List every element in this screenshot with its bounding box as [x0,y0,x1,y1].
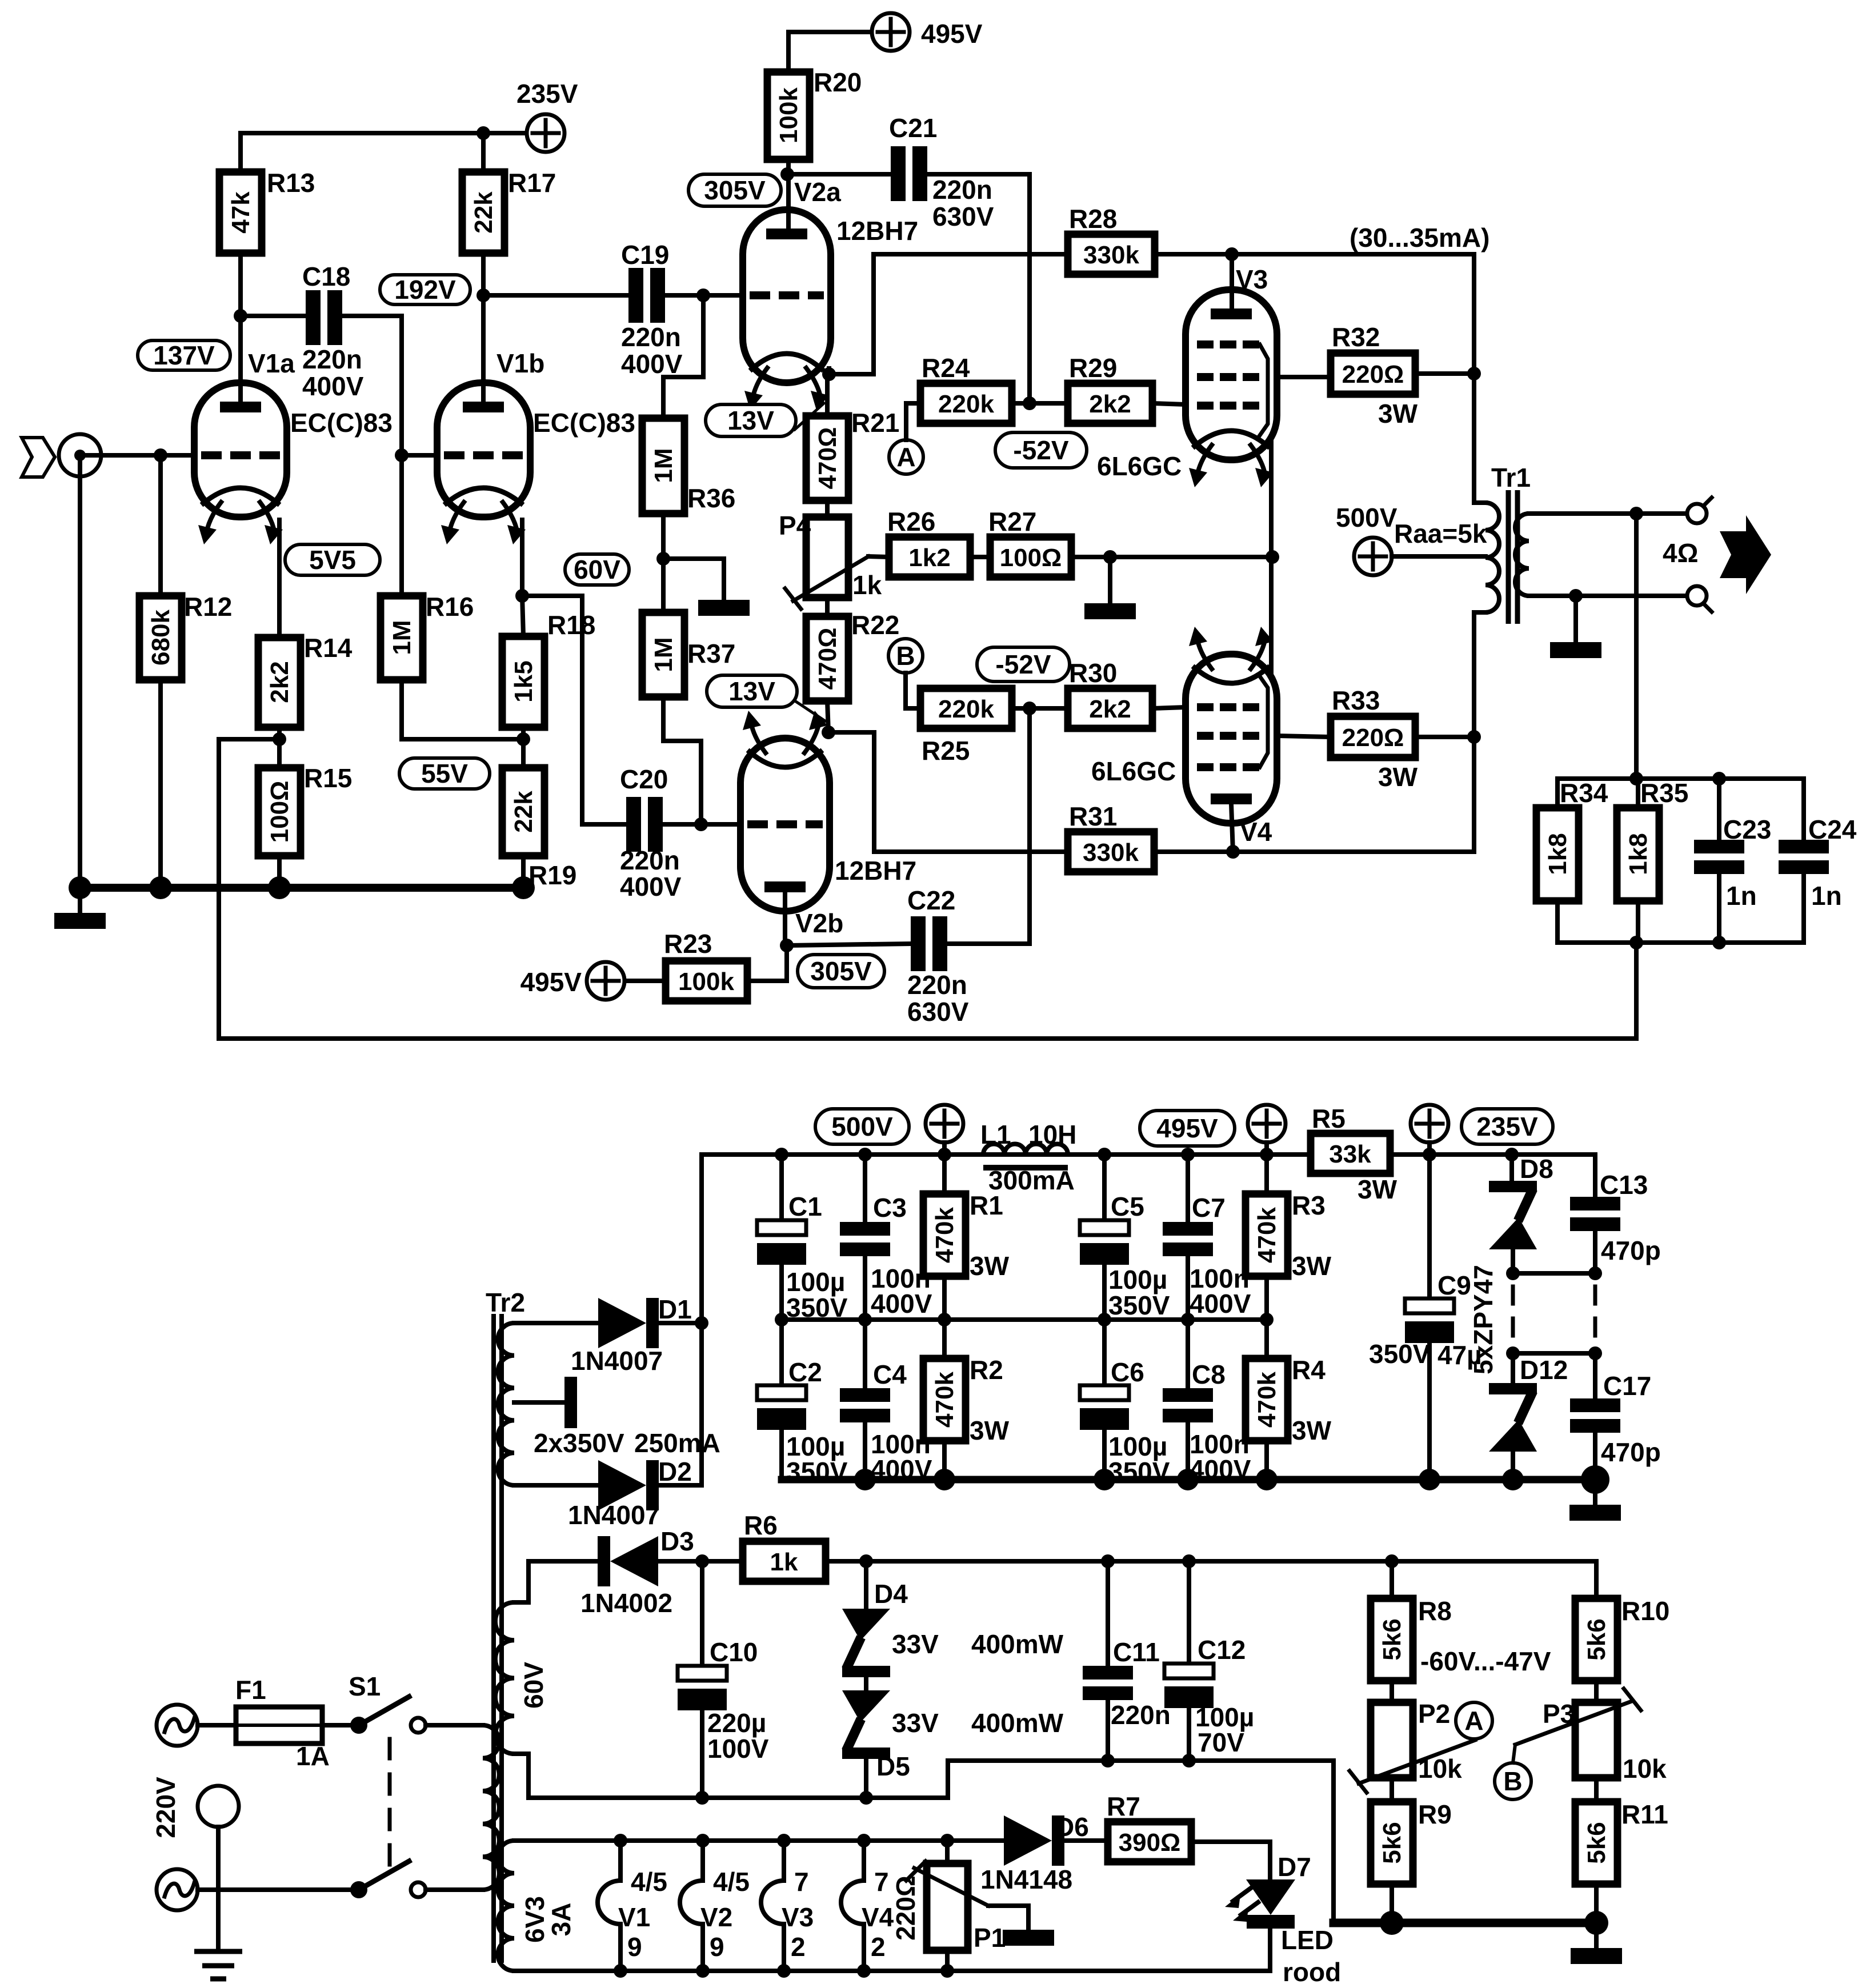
wire R34 stems [1555,779,1560,808]
wire D4 stem [864,1561,868,1609]
wire D5 to bottom [864,1759,868,1798]
svg-text:5k6: 5k6 [1378,1822,1406,1863]
svg-text:R30: R30 [1069,658,1117,688]
voltage label 60V [565,554,629,585]
svg-text:2x350V: 2x350V [534,1428,624,1458]
test point A (bias) [1456,1702,1492,1739]
capacitor C22 [907,885,969,1027]
capacitor C6 (electrolytic) [1080,1357,1170,1486]
tube V1b grid dashes [444,451,523,459]
wire D6 to R7 [1064,1838,1108,1843]
capacitor C10 (electrolytic) [678,1637,769,1763]
svg-text:C11: C11 [1113,1637,1160,1667]
transformer Tr1 secondary [1515,514,1689,596]
svg-text:D2: D2 [658,1457,692,1486]
svg-text:6V3: 6V3 [520,1896,550,1943]
wire bias node to ground [663,559,724,600]
svg-text:V4: V4 [1240,817,1272,847]
svg-text:330k: 330k [1083,241,1139,269]
wire C8 stems [1186,1320,1190,1388]
tube V4 heater arrows [1189,627,1274,669]
resistor R16 [381,592,474,680]
power node + (500V) [926,1105,963,1143]
svg-text:4/5: 4/5 [713,1867,750,1897]
capacitor C11 [1083,1637,1171,1730]
svg-text:3W: 3W [1292,1251,1332,1281]
svg-text:LED: LED [1281,1925,1334,1955]
tube V3 plate [1211,308,1252,319]
wire R8 stem [1390,1561,1394,1598]
svg-text:V2b: V2b [795,908,843,938]
capacitor C7 [1163,1193,1251,1318]
HV bottom rail [782,1476,1595,1484]
wire C22 from V2b anode [787,944,909,945]
wire RCA shield down to ground rail [78,461,82,888]
wire C5 stems [1102,1155,1107,1220]
svg-text:D6: D6 [1055,1812,1089,1842]
wire R4 stems [1264,1320,1269,1358]
zener diode D5 [842,1690,890,1759]
wire D1 to HV rail [659,1321,702,1325]
svg-text:R31: R31 [1069,801,1117,831]
svg-text:V1a: V1a [248,348,295,378]
svg-text:5k6: 5k6 [1583,1618,1611,1660]
wire D8-C13 link [1513,1271,1595,1276]
wire dashed zener chain [1511,1286,1515,1341]
svg-text:4/5: 4/5 [631,1867,667,1897]
wire V1b cathode to 60V node [520,520,524,596]
HV mid rail [782,1317,1267,1322]
svg-text:350V: 350V [1369,1339,1431,1369]
svg-text:R24: R24 [922,353,970,383]
svg-text:C19: C19 [621,240,669,270]
svg-text:192V: 192V [394,275,456,304]
wire ground stem (cathode rail) [1108,557,1112,603]
svg-text:R32: R32 [1332,322,1380,352]
voltage label 495V (supply) [1140,1111,1235,1146]
wire V3 screen to R32 [1277,375,1331,379]
voltage label 192V [380,275,470,304]
svg-text:C18: C18 [302,262,350,291]
svg-text:C13: C13 [1600,1170,1648,1200]
svg-text:R17: R17 [508,168,556,198]
resistor R10 [1575,1596,1669,1681]
resistor R31 [1068,801,1154,872]
node R6/D4 [859,1554,873,1568]
svg-text:70V: 70V [1198,1728,1244,1757]
wire V2a cathode [829,254,874,374]
svg-text:R14: R14 [304,633,353,663]
svg-text:495V: 495V [1156,1113,1218,1143]
svg-text:R12: R12 [184,592,232,622]
svg-text:C8: C8 [1192,1360,1226,1389]
mains earth terminal [198,1786,239,1827]
voltage label 13V (V2a cathode) [706,404,796,436]
svg-text:R33: R33 [1332,686,1380,715]
svg-text:10H: 10H [1028,1120,1076,1149]
capacitor C9 (electrolytic) [1405,1270,1482,1370]
wire R3 stems [1264,1155,1269,1194]
svg-text:1A: 1A [296,1741,330,1771]
wire neutral to switch [198,1887,350,1892]
svg-text:C6: C6 [1111,1357,1144,1387]
svg-text:1N4148: 1N4148 [980,1865,1072,1894]
svg-text:C7: C7 [1192,1193,1226,1223]
tube V4 plate [1211,793,1252,804]
svg-text:220V: 220V [151,1777,181,1838]
node V2b grid [694,817,708,831]
svg-text:1n: 1n [1726,881,1757,911]
svg-text:1k: 1k [770,1548,798,1576]
wire C12 stems [1187,1561,1191,1664]
input RCA jack [59,434,101,476]
svg-text:V1: V1 [618,1902,650,1932]
svg-text:C23: C23 [1723,815,1771,844]
wire P4 wiper to R26 [868,556,889,557]
svg-text:6L6GC: 6L6GC [1091,756,1176,786]
svg-text:R3: R3 [1292,1191,1326,1220]
resistor R29 [1068,353,1152,423]
svg-text:R2: R2 [970,1355,1003,1385]
svg-text:Raa=5k: Raa=5k [1394,519,1487,548]
capacitor C19 [621,240,683,379]
svg-text:12BH7: 12BH7 [836,216,918,246]
wire fuse to switch [322,1723,351,1728]
wire C19 from 192V node [483,293,627,298]
node V1b anode 192V [476,288,490,302]
svg-text:V3: V3 [782,1902,814,1932]
wire C22 to bias node B [949,708,1030,944]
resistor R1 [923,1191,1003,1276]
resistor P3 [1543,1699,1617,1778]
tube V1b envelope [437,383,530,517]
voltage label 305V [688,174,781,206]
wire V4 screen to R33 [1277,736,1331,737]
svg-text:1M: 1M [650,448,678,483]
node D5 bottom [859,1791,873,1805]
svg-text:250mA: 250mA [634,1428,720,1458]
svg-text:D4: D4 [874,1579,908,1609]
svg-text:D5: D5 [876,1751,910,1781]
tube V1a heater arrows [198,502,283,544]
resistor R27 [988,507,1071,577]
wire R31 to V4 anode node [1154,737,1474,852]
node V2a anode 305V [780,167,794,181]
svg-text:V2a: V2a [794,177,841,207]
wire R26 to R27 [970,555,990,559]
wire zobel bottom rail [1557,940,1804,945]
capacitor C12 (electrolytic) [1164,1635,1254,1757]
svg-text:13V: 13V [728,676,775,706]
transformer Tr2 bias winding 60V [495,1561,702,1798]
voltage label 5V5 [285,544,380,575]
wire R33 to anode line [1415,735,1474,739]
svg-text:C10: C10 [710,1637,758,1667]
svg-text:100Ω: 100Ω [1000,544,1062,572]
svg-text:C24: C24 [1808,815,1857,844]
wire R29 to V3 grid [1152,403,1186,404]
wire LED to heater return [1268,1929,1272,1971]
svg-text:3W: 3W [970,1416,1010,1445]
wire D12 stems [1511,1353,1515,1383]
wire R14 to R15 [277,727,282,768]
fuse F1 [235,1675,330,1771]
node V1a anode 137V [234,309,247,323]
svg-text:3W: 3W [1358,1175,1397,1204]
wire V1b grid resistor R16 [399,455,404,596]
svg-text:V1b: V1b [496,348,544,378]
svg-text:470k: 470k [1253,1372,1281,1428]
svg-text:305V: 305V [704,175,766,205]
node R33/Tr1 [1467,730,1481,744]
svg-text:55V: 55V [421,759,468,788]
svg-text:5xZPY47: 5xZPY47 [1468,1265,1498,1374]
svg-text:7: 7 [794,1867,809,1897]
svg-text:470k: 470k [931,1372,959,1428]
svg-text:B: B [896,641,915,671]
capacitor C5 (electrolytic) [1080,1192,1170,1320]
wire output to zobel network [1634,514,1639,779]
svg-text:R13: R13 [267,168,315,198]
svg-text:495V: 495V [921,19,983,49]
node V3/V4 cathodes [1266,550,1279,564]
tube V1a envelope [194,383,287,517]
tube V2b envelope [740,738,830,911]
node V4 anode [1226,845,1240,859]
svg-text:1M: 1M [388,620,416,655]
resistor P4 [779,511,848,598]
transformer Tr2 center tap [514,1377,577,1428]
svg-text:4Ω: 4Ω [1663,538,1698,568]
svg-text:C22: C22 [907,885,955,915]
svg-text:220n: 220n [1111,1700,1171,1730]
tube V1b heater arrows [441,502,526,544]
svg-text:V4: V4 [862,1902,894,1932]
svg-text:220n: 220n [932,175,992,205]
output terminal top [1687,498,1712,523]
resistor R11 [1575,1799,1668,1884]
resistor R9 [1371,1799,1452,1884]
wire bias return [702,1761,1334,1923]
node V2a cathode [822,367,836,381]
svg-text:220Ω: 220Ω [1342,724,1404,752]
wire secondary ground stem [1573,596,1578,642]
wire earth [216,1827,221,1951]
wire + stem 495V [1264,1143,1269,1155]
wire R17 to V1b anode node [481,133,486,172]
svg-text:C3: C3 [873,1193,907,1223]
svg-text:R10: R10 [1621,1596,1669,1626]
svg-text:C17: C17 [1603,1371,1651,1401]
resistor R25 [920,688,1012,765]
tube V3 internal screen lead [1260,344,1268,435]
wire B to R25 [906,673,920,708]
wire + stem 235V [1427,1143,1432,1155]
capacitor C17 [1570,1371,1661,1467]
svg-text:1n: 1n [1811,881,1842,911]
svg-text:470k: 470k [1253,1207,1281,1263]
tube V2a plate [766,229,807,239]
LED D7 [1225,1852,1311,1929]
mains source live [157,1705,198,1746]
svg-text:C1: C1 [788,1192,822,1221]
svg-text:R4: R4 [1292,1355,1326,1385]
resistor R6 [743,1510,826,1581]
test point B [888,639,923,673]
HV supply rail 500V [702,1152,1595,1157]
svg-text:1k5: 1k5 [510,660,538,702]
wire R36 to R37 [661,514,666,612]
node D12 top [1506,1346,1520,1360]
wire C23 stems [1717,779,1721,840]
heater top rail [528,1838,1004,1843]
wire R7 to LED [1191,1842,1270,1881]
diode D1 [571,1294,692,1376]
svg-text:3W: 3W [1378,762,1418,792]
wire C10 stems [700,1561,704,1666]
svg-text:R35: R35 [1640,778,1688,808]
wire R30 to V4 grid [1152,707,1186,708]
resistor R4 [1246,1355,1326,1441]
svg-text:400V: 400V [621,349,683,379]
svg-text:33k: 33k [1329,1140,1371,1168]
tube V2b cathode [750,752,820,767]
node V2b anode 305V [780,939,794,952]
svg-text:470p: 470p [1601,1437,1661,1467]
wire C7 stems [1186,1155,1190,1222]
wire C13 stems [1593,1155,1597,1197]
wire R9 to bias rail [1390,1884,1394,1923]
capacitor C21 [889,113,994,231]
capacitor C23 [1694,815,1771,911]
svg-text:470k: 470k [931,1207,959,1263]
svg-text:500V: 500V [1336,503,1397,532]
node output feedback tap [1629,507,1643,520]
resistor R12 wire [158,455,163,596]
resistor R22 [806,610,899,701]
wire zobel top rail [1557,776,1804,781]
zener diode D12 [1489,1355,1568,1452]
wire + stem 500V [942,1143,947,1155]
wire V2b cathode line to R31 [874,849,1068,854]
potentiometer P4 wiper [793,556,868,601]
wire 137V node to C18 [241,314,304,318]
svg-text:5k6: 5k6 [1583,1822,1611,1863]
svg-text:1k2: 1k2 [908,544,950,572]
svg-text:100k: 100k [678,968,734,996]
diode D6 [980,1812,1089,1894]
wire R23 to V2b anode [747,945,787,981]
svg-text:P2: P2 [1418,1699,1450,1729]
ground [698,600,750,616]
svg-text:R27: R27 [988,507,1036,536]
wire C24 stems [1801,779,1806,840]
ground [1550,642,1601,658]
svg-text:10k: 10k [1623,1754,1667,1783]
heater bottom rail [514,1969,1270,1973]
transformer Tr2 HV winding 2x350V [498,1323,598,1485]
wire live to fuse [198,1723,236,1728]
wire C1 stems [779,1155,784,1220]
wire R35 stems [1636,779,1640,808]
svg-text:3W: 3W [1378,399,1418,428]
svg-text:5k6: 5k6 [1378,1618,1406,1660]
svg-text:220n: 220n [621,322,681,352]
capacitor C3 [840,1193,932,1318]
potentiometer P3 [1594,1681,1599,1702]
power node + (495V) [1248,1105,1286,1143]
switch S1 pole 2 [350,1861,426,1898]
wire C6 stems [1102,1320,1107,1385]
voltage label -52V (top) [995,432,1087,468]
heater V1 [598,1841,667,1971]
resistor R26 [887,507,970,577]
node -52V (top) [1023,396,1036,410]
capacitor C2 (electrolytic) [757,1357,848,1486]
node R14/R15 feedback [273,732,286,746]
power node +235V [527,114,564,152]
tube V4 grids [1197,703,1260,711]
svg-text:C9: C9 [1437,1270,1471,1300]
svg-text:-52V: -52V [1013,435,1068,465]
svg-text:100k: 100k [775,87,803,143]
node V1b grid [395,448,409,462]
tube V1a plate [220,402,261,412]
wire R22 to V2b cathode [827,701,828,732]
svg-text:R5: R5 [1312,1104,1346,1133]
resistor R3 [1246,1191,1326,1276]
svg-text:305V: 305V [810,956,872,986]
transformer Tr2 heater winding 6V3 [498,1841,529,1971]
svg-text:A: A [1464,1706,1483,1736]
svg-text:R25: R25 [922,736,970,765]
wire V3 cathode down [1269,440,1274,557]
svg-text:R16: R16 [426,592,474,622]
capacitor C13 [1570,1170,1661,1265]
ground [1571,1948,1622,1964]
svg-text:220k: 220k [938,695,994,723]
wire P2 to R9 [1390,1778,1394,1802]
wire R20 to V2a anode [786,159,791,227]
wire R6 to D4 node [826,1559,866,1564]
svg-text:R1: R1 [970,1191,1003,1220]
svg-text:10k: 10k [1418,1754,1462,1783]
svg-text:33V: 33V [892,1629,939,1659]
wire R32 to anode line [1415,371,1474,376]
svg-text:2: 2 [871,1932,886,1962]
svg-text:R18: R18 [547,610,595,640]
svg-text:6L6GC: 6L6GC [1097,451,1182,481]
svg-text:R28: R28 [1069,204,1117,234]
resistor R37 [642,612,735,697]
wire C4 stems [863,1320,867,1388]
resistor R12 [139,592,232,680]
wire 495V to R20 [788,32,871,72]
svg-text:100Ω: 100Ω [266,781,294,843]
svg-text:400V: 400V [302,371,364,401]
wire A to P2 wiper [1472,1739,1476,1740]
ground rail (input stage) [76,884,523,892]
svg-text:33V: 33V [892,1708,939,1738]
resistor R2 [923,1355,1003,1441]
svg-text:1N4002: 1N4002 [580,1588,672,1618]
tube V2b grid dashes [747,820,823,828]
svg-text:2k2: 2k2 [1089,695,1131,723]
svg-text:3A: 3A [546,1903,576,1937]
input arrow [22,438,55,477]
resistor R19 [502,768,576,890]
tube V2b heater arrows [743,711,827,753]
